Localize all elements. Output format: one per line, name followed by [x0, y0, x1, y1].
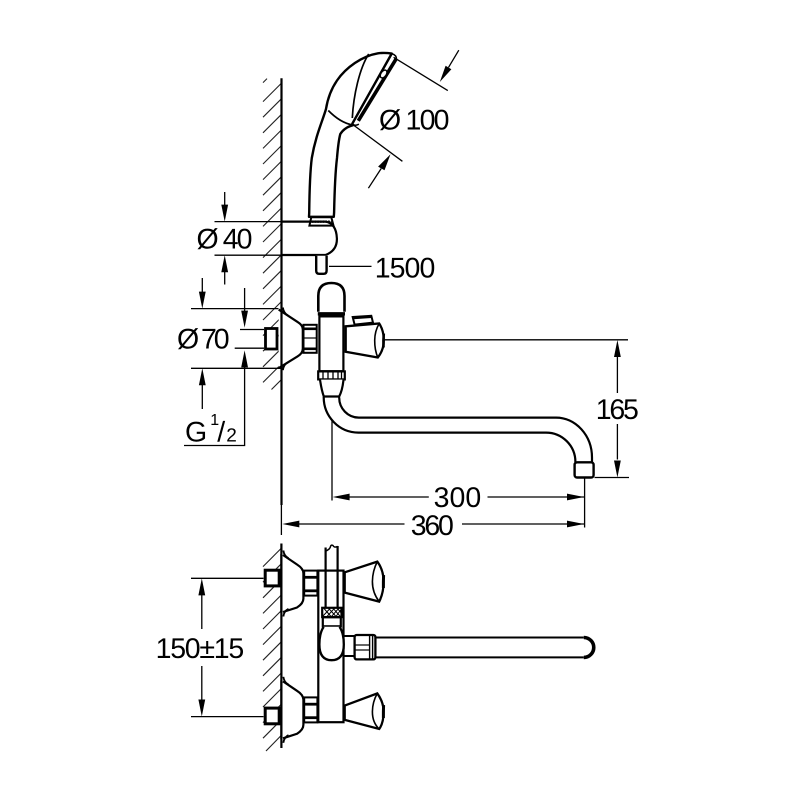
- valve boot: [320, 380, 344, 397]
- dimension Ø70 arrows: [201, 278, 203, 293]
- diverter handle tab: [353, 316, 373, 325]
- svg-text:/: /: [217, 417, 225, 449]
- hand shower outline: [309, 53, 392, 217]
- svg-text:165: 165: [596, 394, 639, 426]
- svg-text:150±15: 150±15: [156, 633, 245, 665]
- shower neck joint line: [328, 111, 352, 125]
- lower cross handle (plan view): [345, 693, 384, 729]
- svg-text:Ø 70: Ø 70: [177, 324, 230, 356]
- shower head rim line: [352, 54, 368, 118]
- shower face small hole: [379, 69, 388, 79]
- dimension Ø40 extension lines: [215, 221, 313, 223]
- dimension 150±15 extension lines: [191, 577, 264, 579]
- svg-text:360: 360: [411, 510, 454, 542]
- connection hex nut (side view): [304, 325, 317, 353]
- lower G1/2 square (plan view): [265, 708, 279, 724]
- upper hex nut (plan view): [304, 571, 317, 596]
- valve body flange band: [318, 312, 345, 315]
- svg-text:Ø 40: Ø 40: [197, 224, 253, 256]
- G1/2 leader: [184, 366, 245, 446]
- wall holder bracket: [282, 222, 337, 255]
- svg-text:Ø 100: Ø 100: [379, 105, 450, 137]
- lower hex nut (plan view): [304, 697, 317, 722]
- spout end cap (plan view): [584, 638, 594, 658]
- upper G1/2 square (plan view): [265, 570, 279, 586]
- spout aerator nut: [575, 462, 594, 477]
- wall line (side view): [280, 78, 282, 505]
- shower handle knurl: [309, 217, 333, 225]
- spout nut (plan view): [355, 635, 376, 659]
- G1/2 dimension arrows: [244, 288, 246, 312]
- dimension Ø100 arrows: [449, 50, 459, 67]
- hose knurl band (plan view): [322, 608, 341, 617]
- dimension 360: [282, 521, 299, 528]
- wall hatch (plan view): [263, 548, 281, 751]
- hose nut band (plan view): [323, 617, 341, 626]
- hose stub: [316, 256, 326, 274]
- lower escutcheon (plan view): [283, 681, 303, 738]
- upper cross handle (plan view): [345, 562, 384, 602]
- dimension Ø70 extension lines: [191, 308, 279, 310]
- shower face band: [352, 54, 391, 124]
- diverter knob (plan view): [319, 627, 343, 660]
- leader 1500: [329, 265, 372, 267]
- diverter handle cone (side view): [346, 324, 384, 358]
- valve body: [319, 316, 343, 371]
- dimension 165 extension lines: [384, 339, 628, 341]
- spout stem (plan view): [344, 635, 355, 637]
- G1/2 square nipple (side view): [266, 329, 278, 350]
- spout tube (plan view): [375, 637, 583, 639]
- valve body knurl ring: [318, 371, 345, 379]
- shower outlet pipe (plan view): [325, 548, 327, 608]
- spout (side view): [324, 397, 576, 463]
- diverter handle cap arc: [375, 324, 380, 358]
- dimension Ø40 arrows: [224, 192, 226, 206]
- pipe break squiggle: [326, 545, 338, 551]
- svg-text:1500: 1500: [375, 253, 436, 285]
- escutcheon dome (side view): [279, 310, 303, 369]
- valve body dome cap: [318, 283, 344, 312]
- wall hatch (side view): [263, 79, 282, 390]
- dimension Ø100 extension lines: [394, 57, 448, 90]
- dimension 165: [614, 340, 621, 357]
- upper escutcheon (plan view): [283, 555, 303, 612]
- svg-text:2: 2: [226, 426, 237, 447]
- wall line (plan view): [280, 544, 282, 749]
- faucet body (plan view): [318, 571, 343, 723]
- dimension 150±15: [198, 578, 205, 595]
- svg-text:G: G: [185, 417, 207, 449]
- dimension 300: [331, 420, 333, 501]
